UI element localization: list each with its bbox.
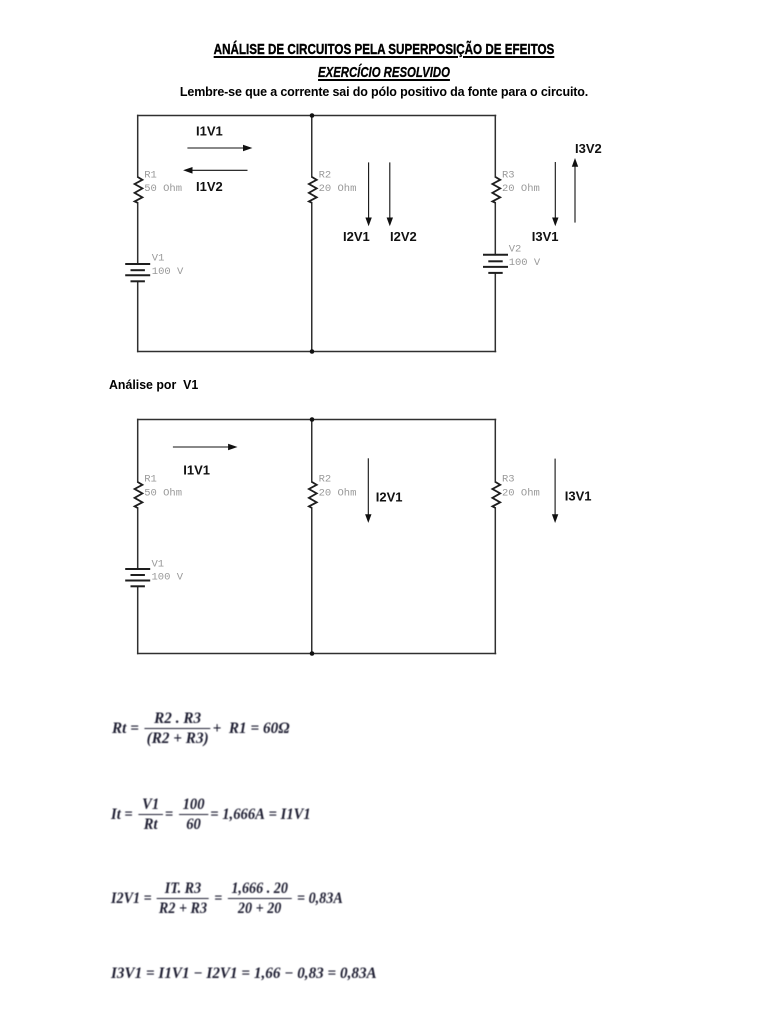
arrow I1V2 (left) (183, 167, 247, 174)
arrow I1V1 (right) (187, 145, 252, 152)
wire right branch R3-to-V2 (494, 203, 496, 255)
svg-text:R2: R2 (319, 474, 332, 486)
equation 2: It (111, 797, 311, 833)
wire left branch V1-to-bottom (137, 586, 139, 653)
wire left branch R1-to-V1 (137, 203, 139, 264)
svg-text:R1: R1 (144, 474, 157, 486)
svg-text:R2: R2 (319, 169, 332, 181)
CIRCUIT 2 (100, 400, 640, 680)
wire left branch V1-to-bottom (137, 281, 139, 351)
node junction bottom (circuit 2) (310, 651, 315, 656)
battery V1 (circuit 2) (125, 569, 150, 586)
equation 3: I2V1 (111, 881, 343, 917)
svg-text:20 Ohm: 20 Ohm (502, 488, 540, 500)
svg-text:100 V: 100 V (152, 572, 184, 584)
wire top rail circuit 2 (138, 419, 496, 421)
wire bottom rail circuit 2 (138, 653, 496, 655)
wire middle branch R2-to-bottom (311, 203, 313, 352)
svg-text:I2V1: I2V1 (376, 490, 403, 505)
arrow I3V1 (down, circuit 2) (552, 459, 558, 523)
svg-text:20 Ohm: 20 Ohm (319, 183, 357, 195)
svg-text:I3V1: I3V1 (532, 229, 559, 244)
resistor R3 (492, 177, 500, 203)
svg-text:I3V2: I3V2 (575, 141, 602, 156)
arrow I3V2 (up) (572, 158, 578, 223)
svg-text:I1V2: I1V2 (196, 179, 223, 194)
svg-text:100 V: 100 V (152, 266, 184, 278)
wire left branch R1-to-V1 (137, 508, 139, 569)
svg-text:R1: R1 (144, 169, 157, 181)
resistor R2 (circuit 2) (309, 482, 317, 508)
node junction bottom (circuit 1) (310, 349, 315, 354)
resistor R1 (circuit 2) (135, 482, 143, 508)
battery V2 (483, 255, 508, 273)
equation 1: Rt (112, 711, 290, 747)
svg-text:50 Ohm: 50 Ohm (144, 183, 182, 195)
node junction top (circuit 2) (310, 417, 315, 422)
heading Análise por V1 (109, 377, 198, 392)
intro line (0, 85, 768, 99)
resistor R2 (309, 177, 317, 203)
svg-text:50 Ohm: 50 Ohm (144, 488, 182, 500)
svg-text:R3: R3 (502, 474, 515, 486)
wire middle branch upper (to R2) (311, 420, 313, 483)
battery V1 (125, 264, 150, 281)
arrow I1V1 (right, circuit 2) (173, 444, 238, 451)
svg-text:I1V1: I1V1 (196, 123, 223, 138)
svg-text:I3V1: I3V1 (565, 489, 592, 504)
wire right branch upper (to R3) (494, 420, 496, 483)
resistor R1 (135, 177, 143, 203)
svg-text:I1V1: I1V1 (183, 463, 210, 478)
node junction top (circuit 1) (310, 113, 315, 118)
svg-text:V2: V2 (509, 244, 522, 256)
svg-text:100 V: 100 V (509, 257, 541, 269)
subtitle (93, 64, 674, 81)
svg-text:V1: V1 (152, 559, 165, 571)
arrow I2V1 (down, circuit 2) (365, 458, 371, 523)
arrow I2V1 (down) (365, 162, 371, 226)
wire left branch upper (to R1) (137, 116, 139, 178)
svg-text:V1: V1 (152, 252, 165, 264)
arrow I2V2 (down) (387, 162, 393, 226)
svg-text:R3: R3 (502, 169, 515, 181)
wire bottom rail circuit 1 (138, 351, 496, 353)
wire top rail circuit 1 (138, 115, 496, 117)
svg-text:I2V2: I2V2 (390, 229, 417, 244)
title (86, 41, 682, 58)
wire right branch upper (to R3) (494, 116, 496, 178)
arrow I3V1 (down) (552, 162, 558, 226)
equation 4: I3V1 (111, 966, 377, 982)
wire right branch R3-to-bottom (494, 508, 496, 654)
wire middle branch upper (to R2) (311, 116, 313, 178)
svg-text:20 Ohm: 20 Ohm (502, 183, 540, 195)
wire middle branch R2-to-bottom (311, 508, 313, 654)
CIRCUIT 1 (100, 105, 640, 365)
wire right branch V2-to-bottom (494, 273, 496, 352)
wire left branch upper (to R1) (137, 420, 139, 483)
resistor R3 (circuit 2) (492, 482, 500, 508)
svg-text:20 Ohm: 20 Ohm (319, 488, 357, 500)
svg-text:I2V1: I2V1 (343, 229, 370, 244)
